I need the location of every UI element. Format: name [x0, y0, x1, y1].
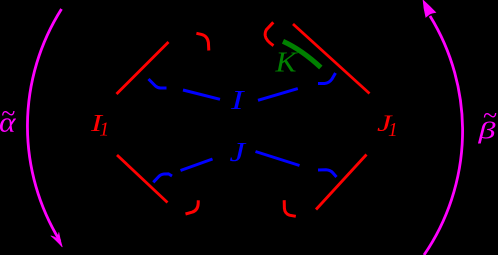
svg-text:1: 1	[388, 120, 398, 141]
svg-text:I: I	[230, 84, 246, 115]
svg-text:~: ~	[483, 101, 497, 130]
svg-text:K: K	[274, 48, 298, 79]
svg-text:1: 1	[99, 119, 109, 141]
svg-text:J: J	[230, 137, 248, 167]
svg-text:~: ~	[1, 99, 15, 128]
